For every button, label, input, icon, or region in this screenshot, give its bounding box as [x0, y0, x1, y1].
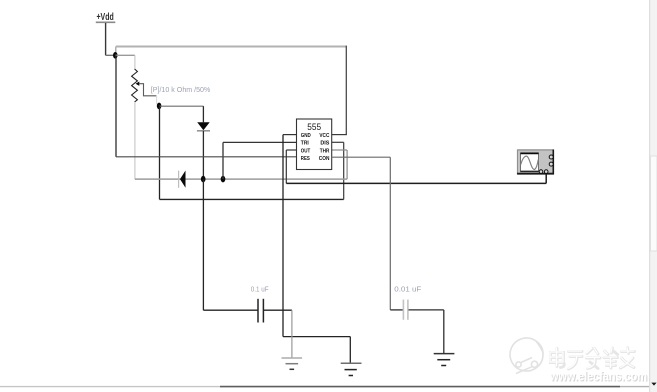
wire D1 cathode down to node C — [202, 131, 204, 179]
wire RES pin to +Vdd node — [116, 55, 297, 157]
potentiometer wiper arrow — [136, 82, 140, 86]
watermark url text — [549, 369, 648, 385]
ground G3 — [434, 354, 455, 366]
ground G1 (gray) — [282, 358, 303, 369]
watermark chinese characters — [551, 348, 635, 370]
wire wiper to node B — [139, 84, 156, 105]
oscilloscope terminals — [539, 155, 553, 173]
svg-text:DIS: DIS — [320, 141, 329, 147]
wire CON pin down to capacitor C2 — [332, 157, 403, 310]
oscilloscope XSC1 body — [517, 150, 554, 175]
capacitor C2 0.01uF plates — [403, 300, 408, 320]
wire pot bottom down to THR net — [134, 102, 136, 179]
node C junction dot — [201, 176, 206, 183]
svg-text:0.01 uF: 0.01 uF — [394, 285, 421, 294]
bottom window edge line — [0, 386, 649, 388]
svg-text:OUT: OUT — [301, 148, 311, 154]
wire THR net horizontal (TRI/THR rail) — [135, 178, 347, 180]
wire VCC net: node up, across top, down to VCC pin — [116, 46, 347, 135]
wire +Vdd down to node — [106, 23, 116, 55]
wire C2 to ground G3 — [409, 310, 444, 354]
svg-text:THR: THR — [320, 148, 330, 154]
wire THR pin right and down to rail — [332, 150, 347, 179]
scrollbar vertical track — [650, 0, 657, 392]
scrollbar down arrow — [651, 383, 656, 386]
svg-text:RES: RES — [301, 156, 310, 162]
wire OUT pin to oscilloscope — [286, 150, 546, 183]
wire C1 to gray ground G1 — [264, 310, 292, 358]
svg-text:+Vdd: +Vdd — [97, 11, 114, 23]
svg-text:VCC: VCC — [319, 133, 329, 139]
wire node to potentiometer top — [115, 55, 135, 69]
op 555 timer U1 box — [297, 119, 332, 170]
svg-text:TRI: TRI — [301, 141, 309, 147]
wire node D up to TRI pin — [223, 142, 297, 179]
node B junction dot (wiper node) — [157, 103, 162, 110]
node D junction dot — [221, 176, 226, 183]
wire GND pin down to ground G2 — [283, 135, 350, 364]
node A junction dot (+Vdd rail) — [113, 52, 118, 59]
svg-text:www.elecfans.com: www.elecfans.com — [549, 369, 647, 384]
svg-text:[P]/10 k Ohm /50%: [P]/10 k Ohm /50% — [151, 85, 211, 94]
capacitor C1 0.1uF plates — [258, 299, 263, 323]
ground G2 — [341, 363, 362, 375]
diode D1 (points down) — [197, 122, 210, 131]
potentiometer R1 zigzag body — [132, 69, 138, 102]
wire node B down and right to DIS pin — [160, 106, 344, 199]
svg-text:CON: CON — [319, 156, 330, 162]
watermark logo circle — [510, 338, 543, 374]
svg-text:555: 555 — [307, 122, 321, 133]
svg-text:GND: GND — [301, 133, 311, 139]
diode D2 (points left) — [179, 171, 186, 188]
oscilloscope screen with sine wave — [521, 153, 539, 172]
svg-text:0.1 uF: 0.1 uF — [251, 285, 269, 294]
power +Vdd label — [96, 11, 116, 23]
wire node C down to capacitor C1 — [203, 179, 257, 310]
wire node B right to diode D1 anode — [159, 106, 203, 122]
